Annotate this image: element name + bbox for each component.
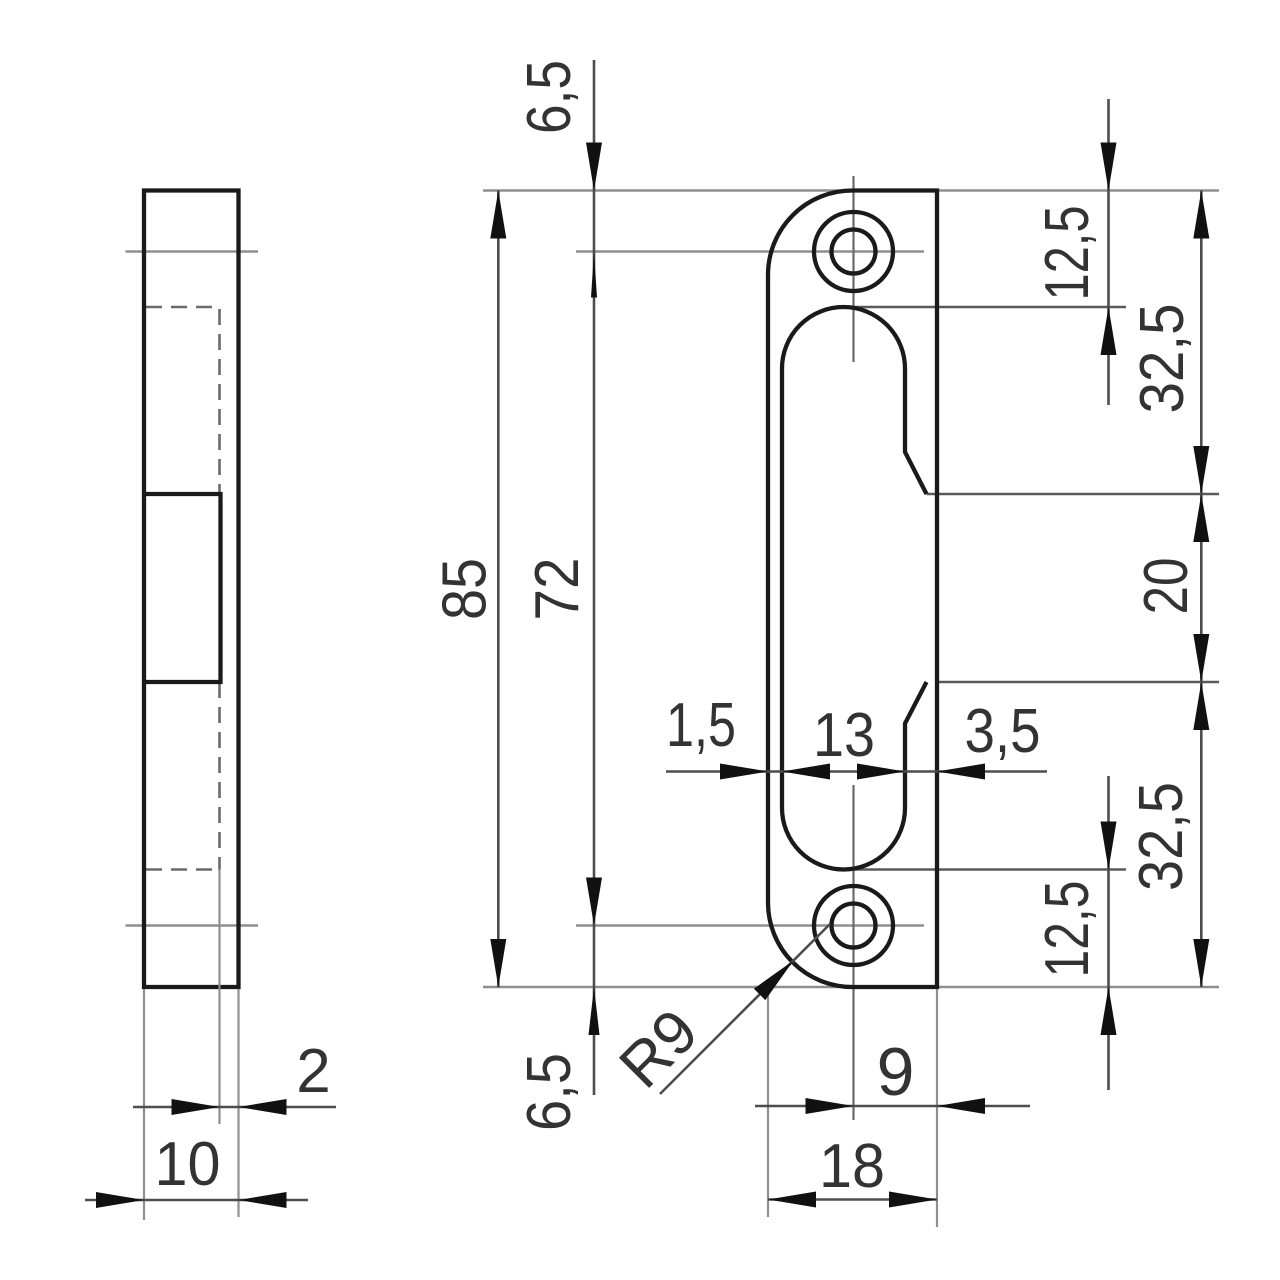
dimension 12,5 bottom arrow up — [1101, 987, 1117, 1035]
cutout top extension line — [927, 493, 1220, 495]
dimension 72 arrow top — [591, 252, 597, 298]
centerline top hole vertical — [852, 176, 854, 362]
svg-text:13: 13 — [813, 701, 875, 770]
dimension 10 arrow left — [96, 1192, 144, 1208]
dimension 20 arrow down — [1193, 634, 1209, 682]
bottom screw hole inner circle — [832, 904, 876, 948]
extension line side-view left edge down — [143, 989, 145, 1220]
bottom edge extension line — [483, 986, 1219, 988]
R9 leader line — [660, 924, 830, 1094]
dimension 10 line — [85, 1199, 308, 1202]
svg-text:6,5: 6,5 — [515, 60, 584, 134]
svg-text:20: 20 — [1132, 558, 1201, 615]
dimension 20 arrow up — [1193, 494, 1209, 542]
bottom screw hole outer circle — [814, 886, 893, 965]
dimension 6,5 top arrow down — [586, 143, 602, 191]
slot bottom tangent extension line — [849, 868, 1126, 870]
dimension 10 arrow right — [239, 1192, 287, 1208]
svg-text:9: 9 — [877, 1034, 915, 1110]
dimension 3,5 arrow right — [937, 764, 985, 780]
dimension 18 line — [768, 1198, 937, 1201]
top screw hole inner circle — [832, 230, 876, 274]
svg-text:2: 2 — [296, 1037, 330, 1106]
dimension 12,5 bottom arrow down — [1101, 822, 1117, 870]
svg-text:32,5: 32,5 — [1127, 782, 1196, 891]
dimension 13 arrow right — [857, 764, 905, 780]
hidden slot dashed right edge lower — [218, 682, 221, 870]
centerline bottom hole horizontal — [576, 924, 924, 926]
dimension 85 arrow bottom — [490, 939, 506, 987]
dimension 72 arrow bottom — [586, 878, 602, 926]
plate outline front view — [768, 191, 937, 988]
extension line side-view inner edge down — [218, 870, 220, 1125]
dimension 9 arrow right — [937, 1098, 985, 1114]
svg-text:6,5: 6,5 — [515, 1053, 584, 1131]
hidden slot dashed right edge upper — [218, 309, 221, 494]
svg-text:12,5: 12,5 — [1033, 206, 1102, 301]
dimension 6,5 bottom arrow up — [589, 987, 600, 1035]
centerline top hole (side view) — [126, 250, 259, 252]
dimension 13 arrow left — [782, 764, 830, 780]
dimension 12,5 top line — [1107, 99, 1110, 405]
R9 leader arrow — [754, 961, 794, 1001]
svg-text:85: 85 — [431, 558, 500, 620]
dimension 32,5 bottom arrow up — [1193, 682, 1209, 730]
svg-text:12,5: 12,5 — [1033, 881, 1102, 978]
dimension 2 arrow left — [172, 1099, 220, 1115]
svg-text:1,5: 1,5 — [666, 691, 736, 760]
latch slot upper part — [782, 307, 927, 808]
dimension 18 arrow left — [768, 1192, 816, 1208]
dimension 85 arrow top — [490, 191, 506, 239]
dimension 9 line — [755, 1105, 1030, 1108]
dimension 9 arrow left — [806, 1098, 854, 1114]
top screw hole outer circle — [814, 212, 893, 291]
extension line side-view right edge down — [237, 989, 239, 1217]
centerline bottom hole vertical — [852, 785, 854, 1120]
dimension chain 32,5 / 20 / 32,5 line — [1200, 191, 1203, 988]
cutout bottom extension line — [937, 681, 1219, 683]
svg-text:3,5: 3,5 — [965, 697, 1041, 766]
dimension 12,5 top arrow down — [1101, 143, 1117, 191]
dimension 18 arrow right — [889, 1192, 937, 1208]
side view outer plate rectangle — [144, 191, 239, 988]
dimension 32,5 top arrow down — [1193, 446, 1209, 494]
hidden slot dashed bottom edge — [146, 868, 220, 871]
centerline top hole horizontal — [576, 250, 924, 252]
top edge extension line — [483, 189, 1219, 191]
latch slot lower part — [782, 682, 927, 870]
svg-text:10: 10 — [155, 1130, 221, 1199]
svg-text:18: 18 — [819, 1132, 885, 1201]
dimension 2 line — [133, 1106, 336, 1109]
hidden slot dashed top edge — [146, 306, 220, 309]
slot top tangent extension line — [849, 306, 1126, 308]
side view lip notch rectangle — [144, 494, 221, 682]
dimension chain line middle — [666, 770, 1047, 773]
dimension 2 arrow right — [239, 1099, 287, 1115]
dimension 12,5 top arrow up — [1101, 307, 1117, 355]
dimension 12,5 bottom line — [1107, 776, 1110, 1090]
svg-text:32,5: 32,5 — [1128, 304, 1197, 414]
dimension 32,5 top arrow up — [1193, 191, 1209, 239]
svg-text:72: 72 — [523, 558, 592, 621]
extension line front left edge down — [767, 989, 769, 1217]
dimension 32,5 bottom arrow down — [1193, 939, 1209, 987]
centerline bottom hole (side view) — [126, 924, 259, 926]
dimension 85 line — [497, 191, 500, 988]
extension line front right edge down — [936, 989, 938, 1227]
dimension 6,5 top and 72 shared line — [593, 60, 596, 1095]
dimension 1,5 arrow left — [720, 764, 768, 780]
